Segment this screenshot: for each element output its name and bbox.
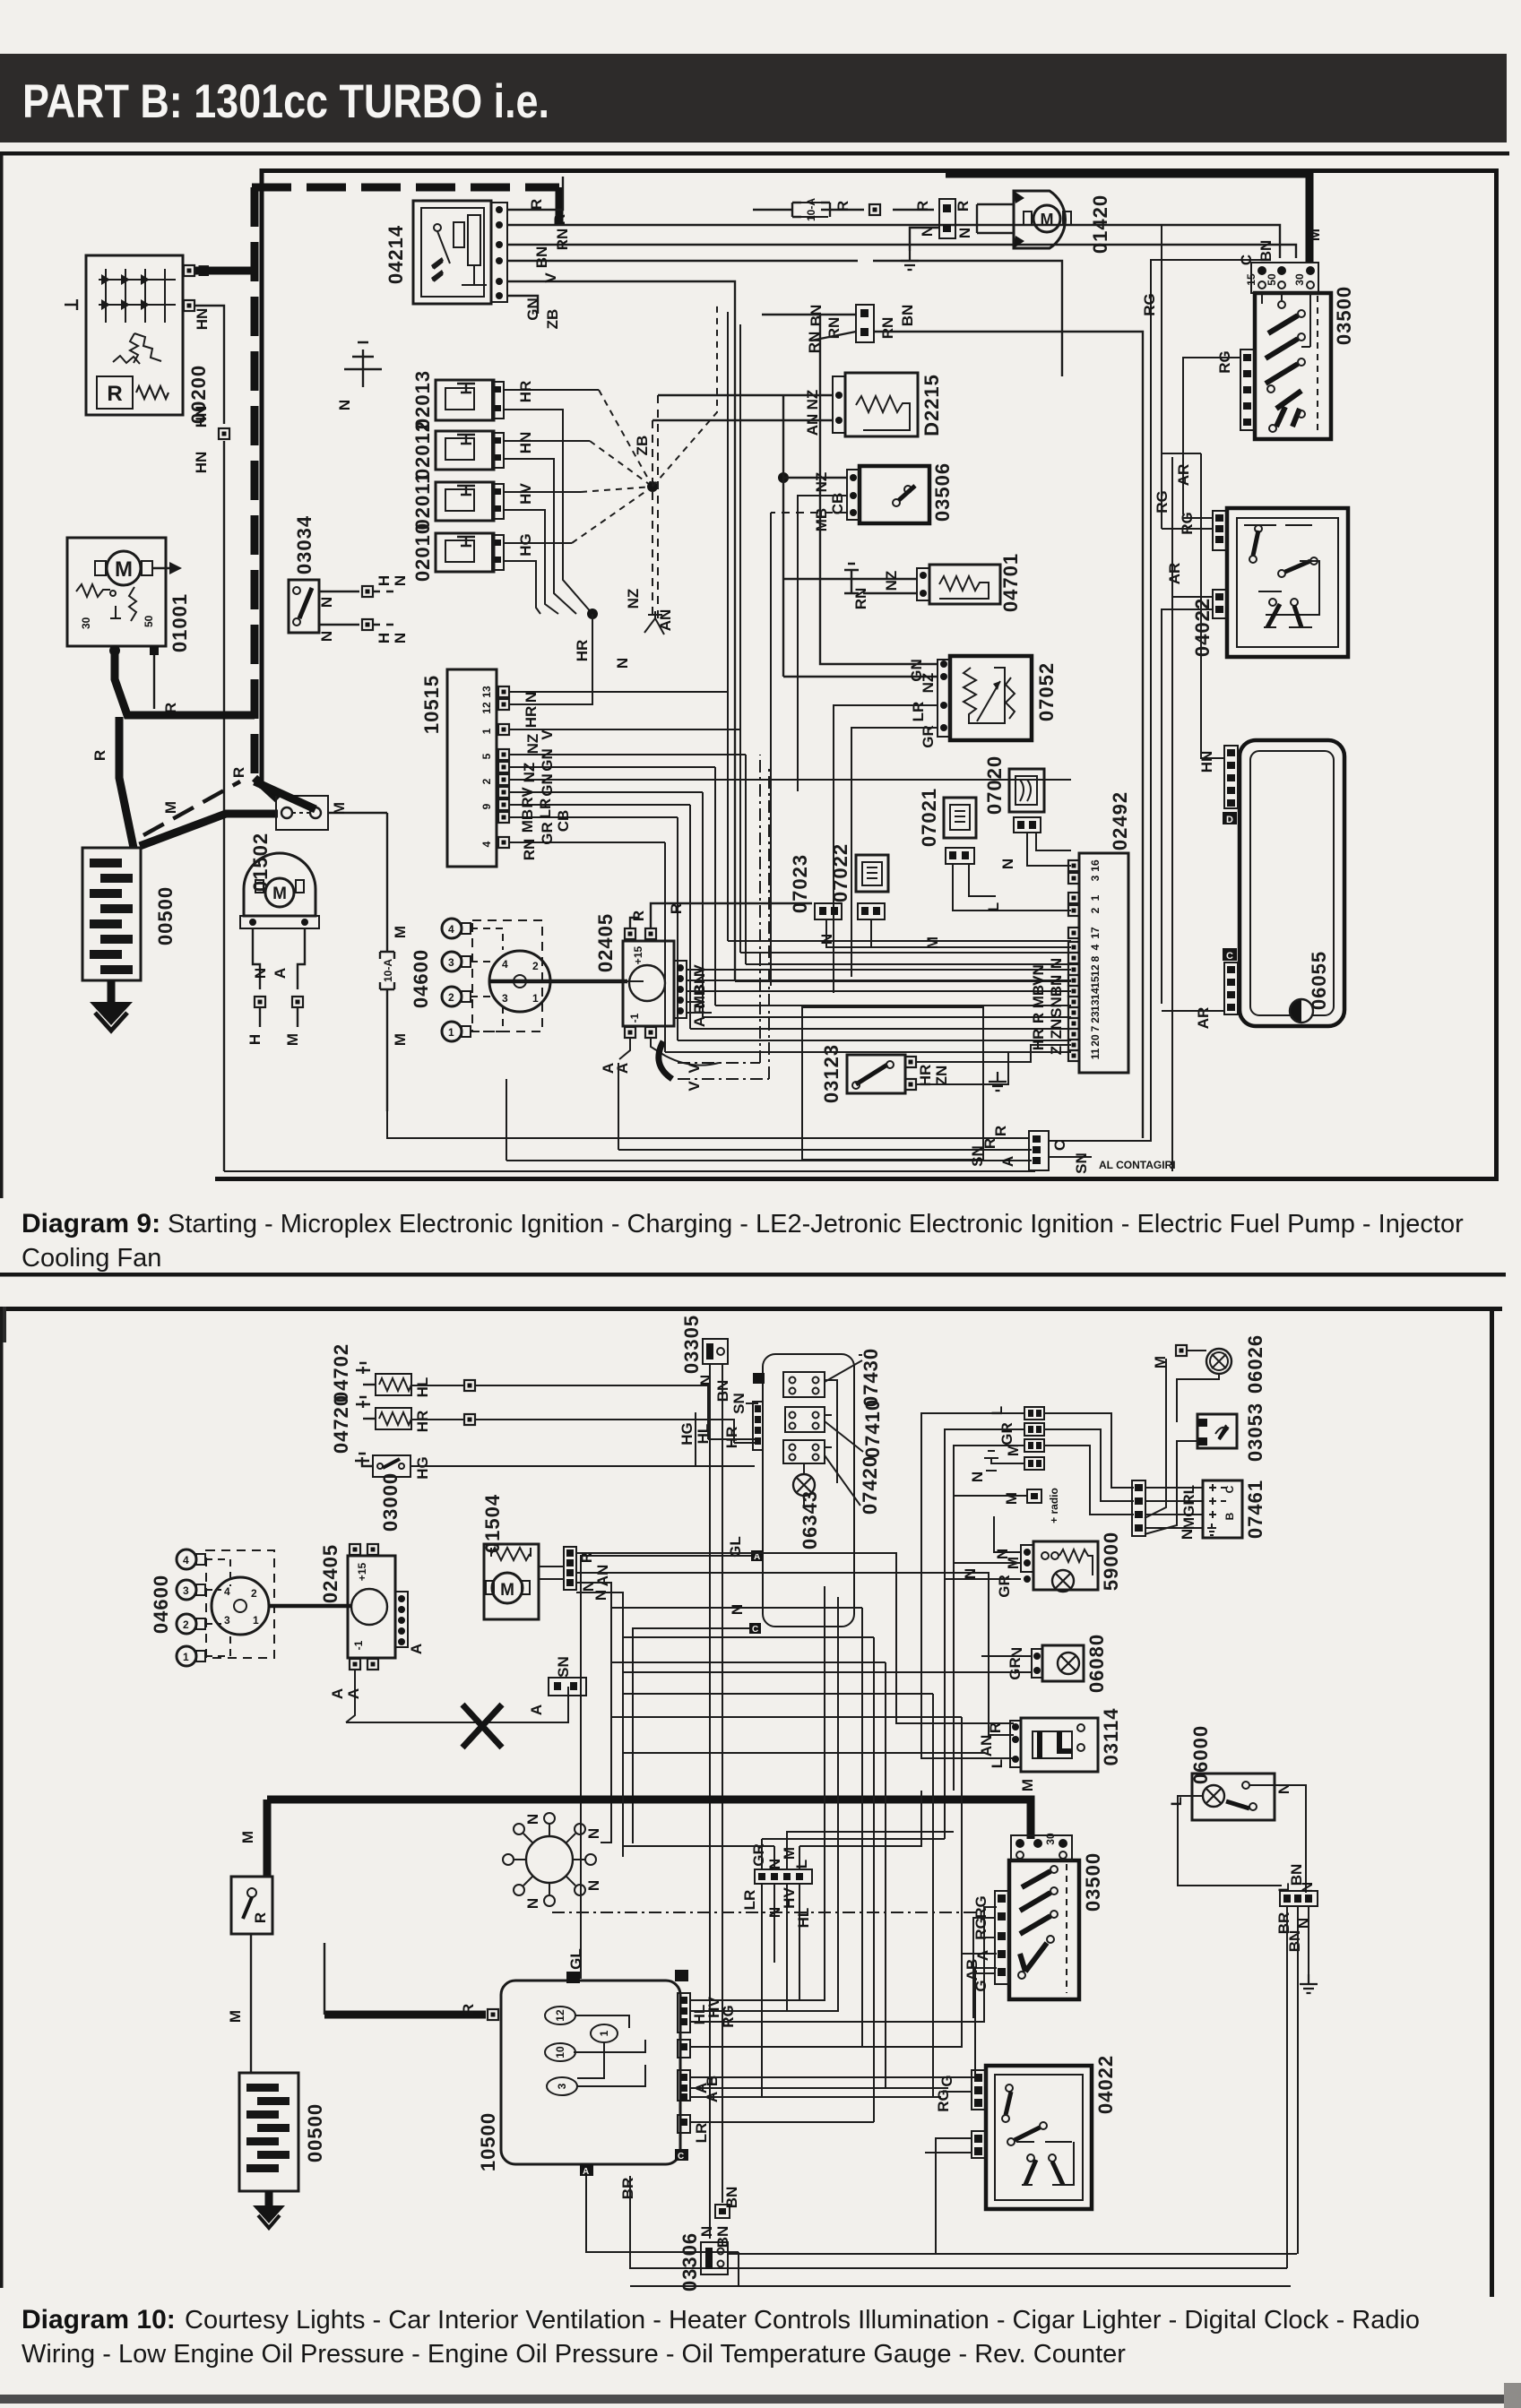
wire R long to ignition switch: [507, 225, 1280, 258]
thick comma mark: [659, 1041, 672, 1079]
svg-text:M: M: [162, 801, 179, 814]
svg-text:7: 7: [1089, 1025, 1102, 1031]
wires strip to 07461: [1145, 1488, 1203, 1528]
boot light switch 03053: [1197, 1414, 1237, 1448]
dashed M bus vertical: [251, 187, 259, 780]
svg-text:N: N: [392, 633, 409, 643]
distributor 04600 diag10: [206, 1550, 351, 1658]
svg-text:1: 1: [480, 728, 493, 734]
starter terminal 50: [150, 646, 159, 655]
svg-text:BR: BR: [619, 2178, 636, 2200]
connector HR: [464, 1414, 475, 1425]
svg-text:LR: LR: [537, 798, 554, 819]
svg-text:MGRL: MGRL: [1180, 1485, 1197, 1530]
wires 06080: [623, 1656, 1032, 1672]
M radio feed: [954, 1488, 1060, 1523]
svg-text:03000: 03000: [379, 1472, 402, 1532]
svg-text:L: L: [1168, 1797, 1185, 1806]
wire AN from 01504: [576, 1573, 1014, 1735]
svg-text:02010: 02010: [411, 522, 434, 582]
svg-text:GR: GR: [998, 1422, 1015, 1446]
svg-text:L: L: [1275, 1883, 1292, 1892]
svg-text:RG: RG: [935, 2089, 952, 2112]
wires 06000: [1178, 1785, 1306, 1893]
svg-text:M: M: [1041, 211, 1054, 229]
svg-text:07430: 07430: [860, 1348, 882, 1407]
svg-text:07020: 07020: [983, 755, 1006, 815]
svg-text:50: 50: [143, 615, 155, 627]
svg-text:AR: AR: [1166, 563, 1183, 585]
svg-text:M: M: [924, 936, 941, 949]
svg-text:GR: GR: [1007, 1657, 1024, 1680]
svg-text:5: 5: [480, 753, 493, 759]
svg-text:HN: HN: [517, 432, 534, 454]
wire N1 from 01504: [576, 1583, 611, 1825]
07400 left connector pins: [749, 1373, 765, 1635]
svg-text:RN: RN: [521, 839, 538, 861]
wire N from C pin: [633, 1628, 749, 1843]
ignition switch 03500 diag10: [1009, 1835, 1079, 1999]
svg-text:11: 11: [1089, 1048, 1102, 1059]
svg-text:N: N: [729, 1604, 746, 1615]
svg-text:HR: HR: [723, 1427, 740, 1449]
svg-text:01504: 01504: [481, 1494, 504, 1553]
svg-text:59000: 59000: [1100, 1532, 1122, 1591]
connector strip 07461: [1132, 1480, 1145, 1536]
tach signal unit 03123: [802, 1007, 983, 1160]
lighting relay 04022: [1213, 508, 1348, 657]
coil low tension wires: [687, 970, 1071, 1013]
svg-text:06343: 06343: [799, 1490, 821, 1549]
svg-text:4: 4: [480, 841, 493, 847]
svg-text:10-A: 10-A: [382, 959, 394, 982]
svg-text:10: 10: [554, 2046, 566, 2058]
svg-text:30: 30: [80, 617, 92, 629]
svg-text:07022: 07022: [829, 843, 851, 902]
svg-text:Wiring - Low Engine Oil Pressu: Wiring - Low Engine Oil Pressure - Engin…: [22, 2340, 1126, 2369]
page left border diag10: [0, 1311, 4, 2288]
instrument panel 10500: [501, 1981, 680, 2164]
svg-text:NZ: NZ: [920, 673, 937, 694]
svg-text:C: C: [752, 1625, 758, 1635]
svg-text:HR: HR: [917, 1065, 934, 1087]
wire RG to 04022: [1172, 457, 1213, 529]
svg-text:R: R: [528, 199, 545, 210]
dashed M bus corner to junction box: [255, 778, 278, 799]
svg-text:07023: 07023: [789, 854, 811, 913]
wire lamp to 03053: [1177, 1374, 1219, 1422]
wire HR: [411, 1420, 734, 1434]
svg-text:M: M: [500, 1581, 514, 1600]
10500 top connector D: [566, 1972, 580, 1983]
node NZ: [778, 472, 789, 483]
idle actuator 07020: [1009, 769, 1044, 833]
svg-text:03306: 03306: [678, 2232, 701, 2291]
svg-text:02405: 02405: [319, 1544, 341, 1603]
svg-text:2: 2: [183, 1618, 189, 1631]
svg-text:N: N: [697, 1375, 714, 1385]
wires 03034 to HN connectors: [319, 591, 359, 625]
svg-text:RG: RG: [972, 1917, 990, 1940]
oil pressure switch 03034: [289, 580, 319, 633]
svg-text:M: M: [1003, 1492, 1020, 1505]
caption diagram 9: [22, 1209, 1464, 1273]
instrument cluster 06055: [1223, 740, 1344, 1026]
svg-text:23: 23: [1089, 1011, 1102, 1023]
svg-text:D: D: [1226, 815, 1233, 825]
wire HR injector 02013: [504, 389, 599, 391]
svg-text:SN: SN: [1048, 997, 1065, 1018]
wire HG: [410, 1412, 696, 1466]
svg-text:2: 2: [448, 991, 454, 1004]
svg-text:ZB: ZB: [634, 436, 651, 456]
svg-text:07461: 07461: [1244, 1480, 1266, 1539]
svg-text:A: A: [528, 1705, 545, 1715]
lower injector return wires: [504, 410, 592, 614]
ground 04701: [844, 564, 917, 593]
svg-text:GR: GR: [920, 725, 937, 748]
svg-text:07410: 07410: [861, 1399, 884, 1458]
04214 connector strip: [491, 203, 507, 302]
svg-text:G: G: [972, 1980, 990, 1991]
svg-text:03034: 03034: [293, 515, 315, 574]
svg-text:04214: 04214: [385, 225, 407, 284]
svg-text:SN: SN: [555, 1656, 572, 1678]
ground battery: [90, 1002, 133, 1031]
svg-text:R: R: [914, 201, 931, 211]
wire RG 03500 to 10500: [973, 1918, 995, 2018]
lighting switch 04022 diag10: [986, 2066, 1092, 2209]
svg-text:BN: BN: [1286, 1930, 1303, 1953]
svg-text:06026: 06026: [1244, 1334, 1266, 1394]
wire BN: [507, 261, 1062, 376]
dashed wire R diagonal: [143, 781, 240, 835]
svg-text:L: L: [793, 1860, 810, 1869]
svg-text:L: L: [989, 1759, 1006, 1768]
wires 01502 down: [253, 928, 305, 989]
svg-text:A: A: [691, 1016, 708, 1027]
svg-text:4: 4: [1089, 944, 1102, 950]
connector pair HN: [362, 575, 409, 643]
coolant temp sensor 07021: [944, 798, 976, 864]
svg-text:M: M: [115, 557, 133, 582]
distributor 04600: [472, 920, 550, 1031]
boot light 06026: [1152, 1345, 1231, 1374]
svg-text:MB: MB: [519, 809, 536, 833]
svg-text:A: A: [408, 1644, 425, 1654]
junction arrow AN: [644, 611, 664, 634]
distributor cap terminals diag10: [177, 1549, 230, 1666]
svg-text:N: N: [585, 1880, 602, 1891]
alternator HN terminal: [184, 300, 211, 330]
injector 02012: [436, 431, 504, 470]
03500 diag10 left pins: [995, 1891, 1009, 1984]
cigar lighter 03114: [1010, 1718, 1098, 1772]
svg-text:30: 30: [1293, 273, 1306, 286]
01504 connector strip: [539, 1547, 576, 1590]
wire HG injector 02010: [504, 542, 572, 544]
wire AR to cluster: [1162, 1010, 1224, 1012]
wires 03123 to ECU: [916, 1045, 1071, 1084]
svg-text:N: N: [956, 228, 973, 238]
svg-text:HG: HG: [678, 1422, 696, 1446]
svg-text:10515: 10515: [420, 675, 443, 734]
wire R from 04214 pin1: [507, 177, 563, 210]
svg-text:3: 3: [502, 992, 508, 1005]
svg-text:RN: RN: [879, 317, 896, 340]
svg-text:03053: 03053: [1244, 1403, 1266, 1462]
wire GN to 07052: [820, 315, 938, 664]
svg-text:LR: LR: [693, 2123, 710, 2144]
svg-text:16: 16: [1089, 859, 1102, 872]
wire from A connector down: [586, 2176, 739, 2252]
dashed wire ZB up to 04214: [652, 305, 717, 487]
svg-text:H: H: [376, 575, 393, 586]
svg-text:VN: VN: [1030, 964, 1047, 986]
radio 07461: [1203, 1480, 1242, 1538]
wire R from starter 50: [153, 655, 155, 709]
svg-text:04022: 04022: [1191, 598, 1214, 657]
svg-text:AB: AB: [964, 1959, 981, 1981]
svg-text:AN: AN: [804, 414, 821, 436]
wire R from 01504: [576, 1553, 1014, 1723]
svg-text:HN: HN: [194, 308, 211, 331]
wires below connector: [1287, 1906, 1309, 2268]
svg-text:01502: 01502: [249, 833, 272, 892]
svg-text:2: 2: [1089, 907, 1102, 913]
tach connector: [969, 1126, 1049, 1170]
svg-text:00500: 00500: [304, 2103, 326, 2162]
wire CB: [798, 496, 847, 791]
svg-text:GN: GN: [539, 773, 556, 797]
bottom bus wires diag9: [224, 1063, 1035, 1171]
svg-text:ZN: ZN: [1048, 1019, 1065, 1040]
heater control assembly 07400: [763, 1354, 854, 1627]
connector L N BR: [1280, 1891, 1318, 1906]
svg-text:R: R: [551, 214, 568, 225]
caption diagram 10: [22, 2305, 1420, 2369]
wires A below coil: [619, 1038, 719, 1066]
wire L from 07021: [953, 864, 1071, 911]
rule between diagrams: [0, 1273, 1506, 1277]
svg-text:BN: BN: [714, 2226, 731, 2248]
thick wire R down to fuse box: [119, 717, 134, 848]
svg-text:C: C: [1051, 1140, 1068, 1151]
svg-text:PART B: 1301cc TURBO i.e.: PART B: 1301cc TURBO i.e.: [22, 75, 549, 128]
svg-text:BN: BN: [1048, 975, 1065, 997]
svg-text:R: R: [230, 767, 247, 778]
svg-text:04600: 04600: [410, 949, 432, 1008]
wire C to ignition switch: [1049, 260, 1262, 1141]
air temp sensor 07023: [815, 903, 842, 919]
svg-text:N: N: [698, 2226, 715, 2237]
wires into drop connector: [762, 1839, 799, 1869]
relay box left: [231, 1877, 272, 1934]
ground N radio: [969, 1451, 1024, 1482]
dashed NZ AN drop: [652, 395, 658, 618]
10500 bottom connector A: [580, 2164, 593, 2176]
svg-text:GL: GL: [567, 1948, 584, 1970]
svg-text:01001: 01001: [169, 593, 191, 652]
svg-text:HN: HN: [193, 406, 210, 428]
long bus horizontals diag10: [611, 1608, 984, 1753]
svg-text:GR: GR: [750, 1843, 767, 1867]
wires from 10515 to bus: [509, 692, 1071, 842]
svg-text:M: M: [239, 1831, 256, 1843]
svg-text:2: 2: [480, 778, 493, 784]
svg-text:NZ: NZ: [625, 589, 642, 609]
svg-text:1: 1: [532, 992, 539, 1005]
ignition coil 02405 (diag10): [348, 1544, 408, 1670]
svg-text:N: N: [524, 1814, 541, 1825]
svg-text:04702: 04702: [330, 1343, 352, 1403]
wire GN: [507, 296, 538, 314]
svg-text:A: A: [999, 1156, 1016, 1167]
svg-text:N: N: [585, 1828, 602, 1839]
svg-text:N: N: [336, 400, 353, 410]
wire HL: [411, 1385, 708, 1403]
thick battery bus top: [946, 174, 1309, 262]
wire MB dashed: [771, 512, 847, 514]
wires radio stack to 07461 strip: [1044, 1413, 1134, 1515]
svg-text:N: N: [252, 968, 269, 979]
svg-text:HV: HV: [781, 1887, 798, 1909]
page left border diag9: [0, 155, 4, 1198]
svg-text:A: A: [272, 968, 289, 979]
svg-text:03114: 03114: [1100, 1708, 1122, 1766]
injector 02013: [436, 380, 504, 420]
wire HN long vertical: [223, 441, 225, 1171]
ground fuel pump: [901, 251, 919, 270]
svg-text:1: 1: [183, 1651, 189, 1663]
wire N dash-dot from spider: [552, 1912, 979, 1913]
wire BN 03305 down: [722, 1364, 723, 2203]
svg-text:-1: -1: [352, 1640, 365, 1650]
svg-text:RG: RG: [1216, 350, 1233, 374]
svg-text:NZ: NZ: [813, 472, 830, 493]
wire A loop under coil: [346, 1670, 568, 1722]
svg-text:N: N: [1299, 1882, 1316, 1893]
svg-text:D2215: D2215: [920, 374, 943, 436]
wires 04022 diag10: [925, 2077, 972, 2254]
svg-text:N: N: [969, 1472, 986, 1482]
junction connector box M: [255, 781, 328, 830]
svg-text:1: 1: [598, 2030, 610, 2036]
svg-text:Z: Z: [1048, 1046, 1065, 1055]
svg-text:03500: 03500: [1333, 286, 1355, 345]
svg-text:N: N: [1179, 1529, 1196, 1540]
svg-text:3: 3: [183, 1584, 189, 1597]
wire M right of junction box: [328, 812, 387, 814]
svg-text:GN: GN: [539, 748, 556, 772]
alternator 00200: [65, 255, 183, 415]
svg-text:HG: HG: [517, 533, 534, 557]
04022 diag10 left pins: [972, 2070, 986, 2158]
svg-text:R: R: [107, 382, 122, 406]
connector SN: [528, 1656, 586, 1715]
svg-text:12: 12: [1089, 964, 1102, 977]
dashed bus top horizontal: [252, 187, 559, 226]
svg-text:13: 13: [1089, 999, 1102, 1012]
svg-text:HG: HG: [414, 1456, 431, 1480]
heater bus verticals: [696, 1403, 734, 1466]
leader 07410: [825, 1421, 863, 1452]
svg-text:2: 2: [532, 960, 539, 972]
radio connectors: [1024, 1407, 1044, 1470]
svg-text:NZ: NZ: [804, 390, 821, 410]
svg-text:M: M: [781, 1847, 798, 1860]
wire R fuel pump feed with fuse 10-A: [753, 198, 934, 221]
fuse box 00500: [82, 848, 141, 980]
svg-text:02011: 02011: [411, 472, 434, 531]
svg-text:M: M: [1019, 1779, 1036, 1791]
svg-text:4: 4: [224, 1585, 230, 1598]
svg-text:R: R: [992, 1126, 1009, 1136]
thick M left leg: [264, 1800, 272, 1877]
HN inline connector: [193, 406, 229, 474]
svg-text:+15: +15: [356, 1562, 368, 1581]
svg-text:3: 3: [224, 1614, 230, 1627]
clock lamp 06080: [1032, 1645, 1084, 1681]
svg-text:15: 15: [1089, 976, 1102, 988]
svg-text:N: N: [999, 859, 1016, 869]
svg-text:1: 1: [448, 1026, 454, 1039]
starter motor 01001: [67, 538, 182, 646]
svg-text:04600: 04600: [150, 1575, 172, 1634]
svg-text:8: 8: [1089, 955, 1102, 962]
microplex control unit 04214: [413, 201, 491, 304]
svg-text:AR: AR: [1175, 464, 1192, 487]
svg-text:HL: HL: [695, 1424, 712, 1445]
wire RN inline: [811, 332, 1143, 1138]
wire NZ from D2215: [652, 395, 833, 420]
svg-text:V: V: [686, 1063, 703, 1074]
svg-text:A: A: [583, 2167, 589, 2177]
svg-text:MB: MB: [813, 508, 830, 531]
svg-text:4: 4: [502, 958, 508, 971]
svg-text:02012: 02012: [411, 420, 434, 479]
svg-text:-1: -1: [628, 1013, 641, 1023]
bottom page strip: [0, 2395, 1517, 2404]
node HR: [587, 608, 598, 619]
svg-text:+ radio: + radio: [1048, 1488, 1060, 1523]
wire GL: [581, 1556, 751, 1979]
svg-text:01420: 01420: [1089, 194, 1111, 254]
thick wire M diagonal to junction box: [140, 814, 278, 846]
thick R feed to 10500: [324, 2011, 486, 2019]
svg-text:N: N: [392, 575, 409, 586]
svg-text:04720: 04720: [330, 1394, 352, 1454]
svg-text:10500: 10500: [477, 2112, 499, 2171]
wire HN injector 02012: [504, 440, 590, 442]
svg-text:GL: GL: [727, 1536, 744, 1558]
svg-text:NZ: NZ: [521, 763, 538, 783]
injector 02011: [436, 482, 504, 521]
leader 07430: [825, 1355, 862, 1382]
svg-text:A: A: [614, 1063, 631, 1074]
svg-text:N: N: [524, 1898, 541, 1909]
svg-text:V: V: [686, 1081, 703, 1092]
injector 02010: [436, 533, 504, 572]
svg-text:GR: GR: [539, 822, 556, 845]
svg-text:R: R: [91, 750, 108, 761]
svg-text:3: 3: [448, 956, 454, 969]
dashed HT leads: [471, 928, 503, 1031]
wire 03053 bottom pin: [1145, 1441, 1198, 1534]
svg-text:R: R: [162, 703, 179, 713]
X crossing mark: [462, 1705, 502, 1748]
wire M down to fuse 10-A: [386, 813, 388, 1111]
